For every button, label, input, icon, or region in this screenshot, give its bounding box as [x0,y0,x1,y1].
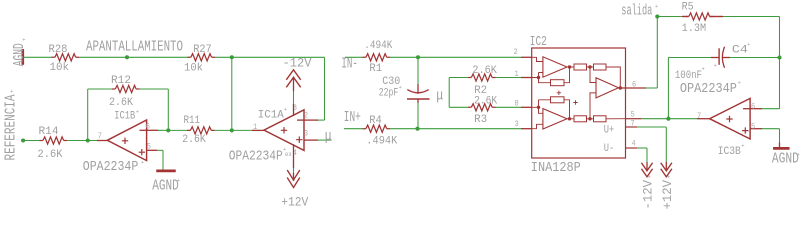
marker IC1A +in inside [296,137,302,143]
wire V+ right [637,126,666,128]
op-amp A3 inside IC2 [596,78,619,98]
wire to +12V symbol [293,168,295,174]
wire AGND to R28 [24,56,52,58]
wire R28 to R27 [79,56,188,58]
pin IC3B +in [750,128,762,130]
svg-text:C4: C4 [732,44,748,57]
svg-text:+: + [738,80,741,87]
svg-text:2.6K: 2.6K [109,97,134,110]
pin IC1A V- power [293,144,295,168]
svg-text:7: 7 [697,113,701,122]
wire R1 to IC2 pin2 [390,56,521,58]
resistor R3 [471,104,492,111]
svg-text:5: 5 [147,143,152,152]
svg-text:IC3B: IC3B [718,145,742,158]
wire IN+ to R4 [344,128,363,130]
svg-text:+: + [747,41,750,48]
svg-text:+12V: +12V [661,180,676,210]
svg-text:+: + [136,109,139,116]
svg-text:AGND: AGND [12,43,28,66]
wire IC1B +in to gnd [157,149,163,151]
wire IC2 pin2 to A1 [532,57,543,61]
svg-text:+: + [797,151,800,158]
pin AGND right stub [779,143,781,148]
wire to A3 +in [590,93,596,119]
resistor R4 [366,125,387,132]
marker IC3B +in inside [742,127,748,133]
svg-text:R4: R4 [369,114,382,127]
svg-text:R28: R28 [49,44,68,57]
wire to -12V symbol [293,91,295,105]
svg-text:.494K: .494K [364,40,392,53]
junction A1 output [568,65,571,68]
wire C4 left rail [668,57,711,59]
junction A1 feedback [537,76,540,79]
wire IC1B output pin [97,140,109,142]
junction A2 feedback [537,106,540,109]
svg-text:μ: μ [325,129,332,145]
junction bottom row middle [588,117,591,120]
marker IC1A center [281,127,287,133]
op-amp IC1A triangle [264,110,304,151]
wire IC3B -in [762,108,780,110]
wire R11 to junction [215,129,232,131]
svg-text:IN-: IN- [341,56,358,72]
svg-text:7: 7 [98,132,102,141]
svg-text:5: 5 [751,123,756,132]
svg-text:8: 8 [515,100,520,109]
pin IC2 5 stub [626,118,642,120]
resistor IC2 bottom row 1 [574,116,587,122]
svg-text:R3: R3 [474,114,487,127]
svg-text:OPA2234P: OPA2234P [229,148,283,164]
junction IC1B output [86,138,90,142]
IC instrument amp IC2 box [532,48,626,158]
wire RG vertical [448,78,450,108]
svg-text:-12V: -12V [283,57,312,72]
svg-text:R27: R27 [193,43,212,56]
svg-text:+: + [648,174,651,181]
marker IC1B +in inside [139,149,145,155]
wire salida to R5 [657,16,682,18]
capacitor C4 [711,57,719,59]
marker IC1A -in inside [297,119,304,121]
wire C4 left down [667,58,669,119]
svg-text:2.6K: 2.6K [38,148,64,161]
svg-text:2.6K: 2.6K [472,65,497,78]
pin IC1A -in [304,119,318,121]
pin IC2 2 [521,56,532,58]
wire V- right [637,147,647,149]
resistor R28 [55,54,76,61]
resistor R11 [190,127,211,134]
pin IC1B -in [147,129,158,131]
resistor IC2 bottom row 2 [594,116,607,122]
wire R3 to IC2 pin8 [496,106,522,108]
resistor R12 [115,85,136,92]
svg-text:.494K: .494K [366,135,398,148]
svg-text:R12: R12 [111,74,131,87]
wire IC2 pin3 to A2 [532,124,543,128]
wire +in down to AGND [779,129,781,143]
node REFERENCIA end [21,138,25,142]
wire C30 top lead [417,57,419,84]
wire V+ down [665,127,667,162]
capacitor C30 [417,84,419,94]
svg-text:+: + [22,37,25,44]
junction IC3B out [666,117,670,121]
svg-text:2: 2 [514,48,518,57]
wire C4 right lead [730,57,780,59]
junction top row middle [588,65,591,68]
junction APANTALLAMIENTO [125,55,129,59]
svg-text:6: 6 [751,103,756,112]
ground AGND below IC1B [156,169,176,172]
resistor R1 [366,54,387,61]
power -12V symbol IC1A [286,70,300,88]
svg-text:1: 1 [253,124,258,133]
svg-text:+: + [714,62,717,69]
wire IC3B +in [762,128,780,130]
wire down right rail [779,17,781,109]
lead R5 right [710,16,724,18]
marker IC3B center [726,116,732,122]
pin IC2 1 [521,77,532,79]
wire IC2 pin8 node [532,100,570,119]
wire pin6 out [646,87,657,89]
svg-text:IN+: IN+ [344,110,361,126]
resistor R2 [471,74,492,81]
svg-text:+: + [702,66,705,73]
power +12V symbol IC2 [661,163,672,177]
wire R12 right [140,88,169,90]
wire feedback vertical left [87,89,89,141]
wire R14 to junction [67,140,88,142]
power -12V symbol IC2 [641,163,652,177]
wire feedback vertical right [167,89,169,130]
wire R12 left [88,88,112,90]
wire IN- to R1 [345,56,363,58]
svg-text:U-: U- [604,142,615,155]
power +12V symbol IC1A [287,170,300,188]
wire up to salida [656,17,658,89]
junction IC1B -in [166,128,170,132]
marker plus inside IC2 mid [573,100,577,104]
resistor A2 feedback [551,97,565,103]
wire V- down [646,148,648,162]
svg-text:OPA2234P: OPA2234P [680,80,737,96]
op-amp IC1B triangle [107,120,146,161]
ground AGND right [773,147,790,150]
pin IC2 7 stub [626,126,638,128]
svg-text:+: + [667,174,670,181]
wire R27 to corner [215,56,325,58]
marker IC1B center [122,138,128,144]
svg-text:+: + [655,3,658,10]
wire R3 left [449,106,468,108]
svg-text:IC1A: IC1A [258,109,285,122]
resistor R27 [191,54,212,61]
svg-text:U+: U+ [604,124,615,137]
svg-text:6: 6 [146,123,151,132]
wire junction down to R11 rail [231,57,233,130]
wire C30 bottom lead [417,103,419,129]
svg-text:IC2: IC2 [530,34,547,50]
svg-text:AGND: AGND [152,178,179,194]
wire to A3 -in [590,67,596,83]
marker plus inside IC2 left [557,91,561,95]
wire down to AGND [162,150,164,170]
svg-text:2: 2 [304,112,308,121]
svg-text:μ: μ [436,88,443,104]
marker IC3B -in inside [743,108,750,110]
junction A2 output [568,117,571,120]
svg-text:+: + [399,84,402,91]
svg-text:22pF: 22pF [379,87,399,100]
lead R5 left [682,16,688,18]
wire IC1A output [232,129,252,131]
svg-text:10k: 10k [184,62,203,75]
svg-text:R1: R1 [369,62,382,75]
wire R2 left [449,77,468,79]
svg-text:03: 03 [285,151,292,158]
wire down to IC1A -in [324,57,326,120]
svg-text:salida: salida [621,3,652,19]
svg-text:R5: R5 [682,1,694,14]
wire R5 to corner [723,16,780,18]
wire IC1B -in to junction [158,129,168,131]
svg-text:+: + [284,106,287,113]
svg-text:R14: R14 [39,125,59,138]
junction R11 right [230,128,234,132]
svg-text:3: 3 [304,130,309,139]
resistor R5 [689,13,710,20]
svg-text:1.3M: 1.3M [682,23,707,36]
ground AGND left symbol [21,49,24,65]
svg-text:2.6K: 2.6K [474,95,498,108]
wire R4 to IC2 pin3 [390,128,521,130]
wire A1 output row [567,67,620,88]
svg-text:REFERENCIA: REFERENCIA [3,94,19,160]
pin IC3B out [697,118,710,120]
junction salida [655,14,659,18]
svg-text:APANTALLAMIENTO: APANTALLAMIENTO [86,39,183,55]
pin IC2 3 [521,128,532,130]
wire corner to IC1A -in pin [316,119,325,121]
resistor R14 [43,137,64,144]
svg-text:R11: R11 [184,115,201,128]
svg-text:+: + [10,88,13,95]
svg-text:IC1B: IC1B [114,110,135,123]
wire IC1A +in stub [318,139,332,141]
svg-text:INA128P: INA128P [531,159,581,175]
svg-text:-12V: -12V [642,180,657,210]
pin IC1A +in [304,139,318,141]
op-amp A1 inside IC2 [543,57,567,77]
pin IC2 8 [521,106,532,108]
resistor IC2 top row 2 [594,64,607,70]
op-amp IC3B triangle [710,98,751,139]
svg-text:+12V: +12V [281,195,308,210]
svg-text:2.6K: 2.6K [182,133,206,146]
junction C4 right [777,55,781,59]
wire A3 out to pin6 [619,87,647,89]
svg-text:10k: 10k [50,61,70,74]
marker IC1B -in inside [140,129,147,131]
resistor A1 feedback [551,80,565,86]
wire R2 to IC2 pin1 [496,77,522,79]
svg-text:1: 1 [515,70,520,79]
svg-text:+: + [741,143,744,150]
wire R11 to IC1B -in [168,129,187,131]
wire A2 output row [567,118,626,120]
wire IC1A output pin [252,129,265,131]
wire IC3B out [668,118,697,120]
pin IC2 4 stub [626,147,638,149]
wire IC1B output [88,140,97,142]
junction A3 output [619,86,622,89]
svg-text:6: 6 [632,81,637,90]
pin IC3B -in [750,108,762,110]
junction R27 right [230,55,234,59]
op-amp A2 inside IC2 [543,109,567,129]
junction C30 bottom [415,127,419,131]
svg-text:AGND: AGND [772,151,799,167]
wire REFERENCIA to R14 [23,140,39,142]
junction C30 top [416,55,420,59]
svg-text:OPA2234P: OPA2234P [83,158,139,174]
svg-text:+: + [141,159,144,166]
svg-text:+: + [177,177,180,184]
resistor IC2 top row 1 [574,64,587,70]
pin IC1A V+ power [293,104,295,116]
pin IC1B +in [147,149,157,151]
svg-text:3: 3 [515,121,520,130]
wire REF to junction [641,118,668,120]
wire IC2 pin1 node [532,67,570,83]
